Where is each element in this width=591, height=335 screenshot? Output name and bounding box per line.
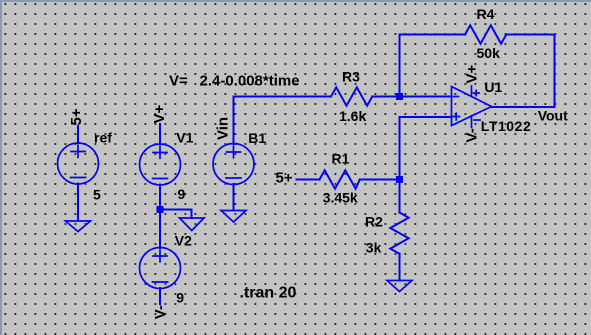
wire R4 to output xyxy=(506,35,554,108)
svg-text:9: 9 xyxy=(178,186,186,202)
svg-text:R3: R3 xyxy=(342,68,360,84)
ground under ref xyxy=(66,221,91,232)
net label V- at V2 bottom xyxy=(152,305,169,319)
label R2 xyxy=(365,213,383,229)
op-amp V+ pin plus marker xyxy=(474,90,480,95)
wire R2 to ground xyxy=(399,254,401,280)
label V1 xyxy=(176,129,193,145)
wire B1 bottom xyxy=(233,184,235,210)
voltage source V1 xyxy=(140,144,181,185)
svg-text:3.45k: 3.45k xyxy=(323,190,358,206)
wire junction up to R4 xyxy=(400,35,466,94)
svg-text:2.4-0.008*time: 2.4-0.008*time xyxy=(200,72,300,89)
wire R1 to junction xyxy=(360,179,396,181)
label R1 xyxy=(332,151,350,167)
svg-text:V=: V= xyxy=(169,72,188,89)
svg-text:Vout: Vout xyxy=(538,107,568,123)
value 9 of V1 xyxy=(178,186,186,202)
svg-text:V1: V1 xyxy=(176,129,193,145)
op-amp inverting input marker xyxy=(454,96,459,98)
label R3 xyxy=(342,68,360,84)
svg-text:LT1022: LT1022 xyxy=(481,118,532,134)
svg-text:R1: R1 xyxy=(332,151,350,167)
svg-text:Vin: Vin xyxy=(215,117,232,140)
wire junction to R2 xyxy=(399,183,401,213)
label ref xyxy=(94,129,112,145)
wire op-amp non-inverting input xyxy=(400,117,452,176)
op-amp V+ pin xyxy=(471,86,473,97)
voltage source ref xyxy=(58,143,99,184)
svg-text:9: 9 xyxy=(176,289,184,305)
svg-text:50k: 50k xyxy=(477,45,501,61)
svg-text:.tran 20: .tran 20 xyxy=(240,284,297,301)
value 5 of ref xyxy=(93,186,101,202)
svg-text:V+: V+ xyxy=(151,104,168,123)
wire ref bottom xyxy=(77,184,79,221)
wire op-amp output xyxy=(492,106,555,108)
svg-text:V-: V- xyxy=(464,128,481,142)
svg-text:V-: V- xyxy=(152,305,169,319)
svg-text:V2: V2 xyxy=(175,233,192,249)
resistor R2 xyxy=(390,213,408,254)
wire ref top pin xyxy=(77,126,79,144)
resistor R4 xyxy=(465,25,506,43)
net label 5+ at R1 left xyxy=(276,170,293,187)
value 9 of V2 xyxy=(176,289,184,305)
svg-text:B1: B1 xyxy=(248,130,266,146)
svg-text:R4: R4 xyxy=(477,6,495,22)
op-amp non-inverting input marker xyxy=(453,113,460,120)
svg-text:V+: V+ xyxy=(464,64,481,83)
op-amp V- pin minus marker xyxy=(474,119,480,121)
net label V- at op-amp bottom xyxy=(464,128,481,142)
svg-text:5+: 5+ xyxy=(276,170,293,187)
svg-text:ref: ref xyxy=(94,129,112,145)
op-amp V- pin xyxy=(471,116,473,128)
net label V+ at op-amp top xyxy=(464,64,481,83)
value 3.45k xyxy=(323,190,358,206)
net label Vin at B1 xyxy=(215,117,232,140)
value 50k xyxy=(477,45,501,61)
net label V+ at V1 top xyxy=(151,104,168,123)
wire R3 to op-amp inverting input xyxy=(372,96,451,98)
expression V= 2.4-0.008*time xyxy=(169,72,300,89)
svg-text:3k: 3k xyxy=(366,239,382,255)
resistor R1 xyxy=(320,170,360,188)
behavioral source B1 xyxy=(213,144,254,185)
junction node R3/R4/op-amp xyxy=(396,93,403,100)
svg-text:R2: R2 xyxy=(365,213,383,229)
label U1 xyxy=(484,79,502,95)
voltage source V2 xyxy=(140,248,181,289)
svg-text:1.6k: 1.6k xyxy=(339,108,366,124)
svg-text:5+: 5+ xyxy=(68,108,85,125)
value 3k xyxy=(366,239,382,255)
svg-text:5: 5 xyxy=(93,186,101,202)
junction node R1/R2/op-amp xyxy=(396,176,403,183)
net label 5+ at ref top xyxy=(68,108,85,125)
wire B1 top to R3 xyxy=(234,97,332,145)
wire 5+ to R1 xyxy=(297,179,320,181)
net label Vout xyxy=(538,107,568,123)
wire V1 top pin xyxy=(159,124,161,145)
svg-text:U1: U1 xyxy=(484,79,502,95)
ground under R2 xyxy=(387,281,412,292)
spice directive .tran 20 xyxy=(240,284,297,301)
op-amp U1 triangle xyxy=(452,87,492,126)
wire V2 bottom pin xyxy=(159,288,161,304)
label LT1022 xyxy=(481,118,532,134)
label B1 xyxy=(248,130,266,146)
resistor R3 xyxy=(331,87,372,105)
label R4 xyxy=(477,6,495,22)
wire V1 bottom to V2 top xyxy=(159,185,161,249)
junction node V1-V2 xyxy=(157,206,164,213)
wire junction to right ground xyxy=(160,210,192,219)
ground under B1 xyxy=(221,211,246,223)
ground right of V1-V2 junction xyxy=(180,218,205,231)
value 1.6k xyxy=(339,108,366,124)
label V2 xyxy=(175,233,192,249)
